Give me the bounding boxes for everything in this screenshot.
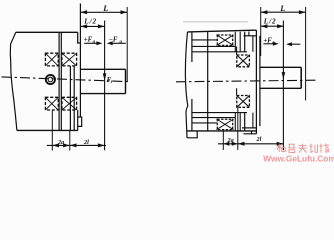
cap inner verticals bottom bbox=[252, 113, 253, 134]
centerline (right shaft axis) bbox=[176, 80, 317, 82]
dimension L right extension bbox=[126, 7, 128, 81]
wall bottom edge bbox=[187, 131, 197, 138]
bearing B2 upper X bbox=[62, 53, 77, 66]
shaft stub outline bbox=[80, 69, 125, 93]
svg-text:2a: 2a bbox=[227, 137, 234, 144]
cap bottom lines bbox=[242, 128, 256, 134]
centerline (left shaft axis, slightly skewed scan) bbox=[2, 77, 131, 82]
dimension L line bbox=[80, 11, 127, 13]
bottom extension line bearing1 center bbox=[51, 111, 53, 151]
-Fa arrow bbox=[112, 42, 126, 44]
faint scan ghost line above right housing bbox=[183, 21, 248, 23]
svg-text:−F: −F bbox=[109, 36, 118, 43]
housing bottom edge bbox=[187, 130, 256, 132]
svg-text:+F: +F bbox=[263, 38, 272, 45]
main bearing top X bbox=[237, 55, 250, 67]
housing right face upper bbox=[78, 32, 81, 43]
retaining vertical top b bbox=[239, 32, 241, 52]
bore line bottom 3 bbox=[192, 112, 247, 114]
+Fa arrow bbox=[84, 42, 97, 44]
body face vertical top bbox=[244, 32, 246, 52]
small bearing top box bbox=[217, 35, 232, 45]
bore line top 2 bbox=[192, 45, 235, 47]
internal vertical line bbox=[207, 32, 209, 131]
cap outer face bbox=[255, 30, 257, 134]
bore line top 3 bbox=[192, 51, 247, 53]
bearing B2 lower box bbox=[62, 97, 77, 110]
char ge bbox=[277, 144, 285, 152]
main bearing bottom X bbox=[237, 96, 250, 108]
bottom extension line 1 right fig bbox=[222, 131, 224, 150]
body face vertical bottom bbox=[244, 113, 246, 131]
svg-text:L: L bbox=[279, 4, 285, 13]
shaft stub outline right figure bbox=[260, 67, 301, 88]
retaining vertical top a bbox=[234, 32, 236, 52]
bottom dim arrows seg1 right fig bbox=[223, 142, 238, 146]
char lu bbox=[288, 144, 296, 152]
bearing retainer line lower bbox=[236, 88, 238, 95]
bottom extension line sleeve (continues below housing) bbox=[69, 130, 71, 150]
retaining vertical bottom b bbox=[239, 113, 241, 131]
dimension L arrows bbox=[80, 10, 127, 14]
bore line bottom 2 bbox=[192, 117, 235, 119]
dimension L/2 arrows bbox=[80, 24, 104, 28]
svg-text:L/2: L/2 bbox=[263, 17, 277, 25]
svg-text:Www.GeLufu.Com: Www.GeLufu.Com bbox=[263, 153, 334, 163]
svg-text:L/2: L/2 bbox=[83, 18, 97, 26]
dimension L arrows right fig bbox=[261, 10, 306, 14]
wavy break line (housing left edge) bbox=[10, 32, 17, 130]
housing top edge bbox=[188, 30, 257, 32]
spacer line bbox=[259, 36, 261, 126]
wall outer break line bbox=[185, 32, 187, 138]
small bearing top X bbox=[217, 35, 234, 46]
dimension L/2 arrows right fig bbox=[261, 24, 284, 28]
main bearing top box bbox=[237, 55, 250, 67]
reverse Fa arrow right fig bbox=[292, 43, 301, 45]
sleeve line A bbox=[69, 66, 71, 130]
bore line top 1 bbox=[192, 39, 217, 41]
dimension L line right bbox=[261, 11, 306, 13]
flange bottom lip bbox=[78, 110, 82, 130]
dimension L/2 line right fig bbox=[261, 25, 284, 27]
bore line bottom 1 bbox=[192, 122, 217, 124]
housing top edge bbox=[16, 31, 78, 33]
char fu bbox=[298, 144, 307, 153]
+Fa arrow right fig bbox=[263, 43, 273, 45]
svg-text:r: r bbox=[111, 80, 113, 85]
dimension L/2 line bbox=[80, 25, 104, 27]
small bearing bottom X bbox=[217, 119, 234, 130]
bearing B2 lower X bbox=[62, 97, 77, 110]
svg-text:2l: 2l bbox=[83, 139, 89, 146]
sleeve line B bbox=[73, 66, 75, 130]
shaft end face bbox=[125, 69, 127, 93]
dimension L left extension right fig bbox=[260, 7, 262, 56]
cap second top line bbox=[244, 35, 257, 37]
char xie bbox=[319, 143, 329, 152]
bearing retainer line upper bbox=[236, 46, 238, 55]
flange face / dim extension line bbox=[79, 4, 81, 118]
wall inner line lower bbox=[191, 99, 193, 131]
bottom dimension line right fig bbox=[218, 143, 283, 145]
bearing B1 upper box bbox=[45, 53, 58, 66]
shaft stub end face right figure bbox=[300, 67, 302, 88]
oil hole circle inner bbox=[48, 77, 53, 82]
bottom dimension line bbox=[47, 144, 106, 146]
load application line right figure bbox=[282, 21, 284, 151]
oil hole circle outer bbox=[46, 75, 55, 84]
housing bottom edge bbox=[17, 129, 78, 131]
bearing B1 upper X bbox=[45, 53, 58, 66]
svg-text:+F: +F bbox=[84, 36, 93, 43]
bottom dim arrows seg1 bbox=[52, 143, 70, 147]
small bearing bottom box bbox=[217, 119, 232, 129]
watermark chinese characters bbox=[277, 143, 329, 152]
wall inner line upper bbox=[191, 32, 193, 62]
bearing B1 lower X bbox=[45, 97, 58, 110]
retaining vertical bottom a bbox=[234, 113, 236, 131]
bearing B2 upper box bbox=[62, 53, 77, 66]
Fr force arrowhead bbox=[103, 73, 107, 80]
main bearing bottom box bbox=[237, 96, 250, 108]
char ji bbox=[309, 144, 317, 153]
dimension L right extension right fig bbox=[305, 7, 307, 101]
split line between paired bearings (twin) bbox=[59, 32, 61, 130]
svg-text:2a: 2a bbox=[57, 139, 64, 146]
bearing B1 lower box bbox=[45, 97, 58, 110]
bottom extension line 2 right fig bbox=[237, 108, 239, 151]
bottom dim arrows seg2 right fig bbox=[238, 142, 284, 146]
cap inner verticals top bbox=[249, 32, 253, 52]
svg-text:L: L bbox=[102, 4, 108, 13]
load application line at L/2 bbox=[104, 21, 106, 151]
Fr force arrowhead right fig bbox=[282, 72, 286, 79]
bottom dim arrows seg2 bbox=[70, 143, 105, 147]
svg-text:2l: 2l bbox=[256, 136, 262, 143]
